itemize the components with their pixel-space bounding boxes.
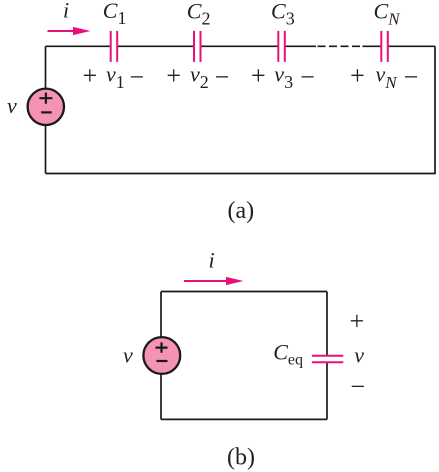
- svg-text:i: i: [209, 248, 215, 273]
- svg-text:C3: C3: [271, 0, 295, 28]
- wire bottom: [46, 173, 436, 175]
- svg-text:v2: v2: [190, 62, 209, 92]
- svg-text:(a): (a): [227, 198, 254, 224]
- svg-text:−: −: [215, 63, 230, 92]
- wire bottom (b): [161, 418, 327, 420]
- wire right of C3: [285, 45, 316, 47]
- svg-text:i: i: [63, 0, 69, 23]
- svg-text:Ceq: Ceq: [273, 340, 303, 369]
- wire top segment left of C1: [46, 45, 111, 47]
- svg-text:v: v: [123, 343, 133, 368]
- svg-text:v3: v3: [274, 62, 293, 92]
- wire top (b): [161, 291, 327, 293]
- wire left above source (b): [160, 292, 162, 338]
- svg-text:+: +: [82, 61, 97, 90]
- wire left of CN: [363, 45, 382, 47]
- svg-text:−: −: [300, 63, 315, 92]
- wire top segment right of CN: [388, 45, 435, 47]
- wire left above source: [45, 46, 47, 88]
- wire between C2 and C3: [201, 45, 279, 47]
- svg-text:CN: CN: [374, 0, 402, 28]
- voltage source v (a): [28, 89, 64, 125]
- svg-text:−: −: [404, 63, 419, 92]
- wire between C1 and C2: [117, 45, 194, 47]
- wire left below source (b): [160, 374, 162, 419]
- capacitor C1: [111, 31, 118, 62]
- wire left below source: [45, 125, 47, 174]
- svg-text:+: +: [166, 61, 181, 90]
- svg-text:C1: C1: [103, 0, 127, 28]
- current arrow i (b): [184, 277, 244, 285]
- svg-text:v: v: [354, 343, 364, 368]
- wire dashed segment (continuation dots): [318, 45, 361, 47]
- capacitor Ceq: [312, 356, 343, 363]
- capacitor CN: [381, 31, 388, 62]
- svg-text:C2: C2: [187, 0, 211, 28]
- svg-text:−: −: [350, 372, 365, 401]
- svg-text:v: v: [7, 93, 17, 118]
- capacitor C3: [278, 31, 285, 62]
- svg-text:+: +: [350, 61, 365, 90]
- svg-text:(b): (b): [227, 445, 255, 471]
- wire right below Ceq (b): [326, 363, 328, 419]
- svg-text:+: +: [251, 61, 266, 90]
- voltage source v (b): [143, 337, 180, 374]
- svg-text:+: +: [349, 306, 364, 335]
- current arrow i (a): [48, 27, 91, 35]
- wire right side: [434, 46, 436, 173]
- svg-text:vN: vN: [376, 62, 399, 92]
- capacitor C2: [194, 31, 201, 62]
- svg-text:v1: v1: [106, 62, 125, 92]
- wire right above Ceq (b): [326, 292, 328, 356]
- svg-text:−: −: [129, 63, 144, 92]
